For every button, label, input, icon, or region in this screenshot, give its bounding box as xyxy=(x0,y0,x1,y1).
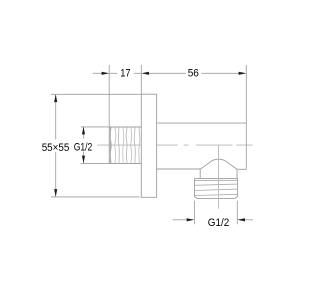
dim 17/56 shared extension line xyxy=(140,65,142,94)
thread boss top edge xyxy=(110,126,142,128)
thread G1/2 dim line upper part xyxy=(83,127,85,139)
horizontal centerline xyxy=(97,144,253,146)
neck right edge xyxy=(236,169,238,178)
svg-text:17: 17 xyxy=(120,68,130,80)
outlet thread line 3 xyxy=(195,189,238,190)
outlet bottom edge xyxy=(197,197,235,199)
thread G1/2 bottom extension line xyxy=(81,162,110,164)
dim 56 line left part xyxy=(149,72,186,74)
dim 17 leader line left xyxy=(93,72,103,74)
dim 17 inner line left stub xyxy=(109,72,117,74)
outlet thread line 1 xyxy=(195,179,238,181)
outlet left edge xyxy=(195,178,198,198)
bell dome cap xyxy=(200,159,237,169)
outlet collar top edge xyxy=(195,177,238,179)
arrow thread G1/2 top xyxy=(82,127,85,135)
dim 17 extension line left xyxy=(108,65,110,164)
outlet G1/2 right extension line xyxy=(236,201,238,225)
thread G1/2 dim line lower part xyxy=(83,152,85,164)
dim 55 line upper part xyxy=(55,94,57,139)
arrow dim56 right xyxy=(239,72,247,75)
body top edge xyxy=(157,122,247,124)
vertical centerline of outlet xyxy=(218,145,220,209)
dim 17 inner line right stub xyxy=(134,72,142,74)
outlet thread line 2 xyxy=(195,184,238,185)
outlet G1/2 left extension line xyxy=(193,201,195,225)
arrow dim17 left xyxy=(102,72,110,75)
arrow dim55 bottom xyxy=(54,189,57,197)
body bottom edge left of bell xyxy=(157,168,201,170)
svg-text:56: 56 xyxy=(188,68,199,80)
arrow outlet G1/2 left xyxy=(187,218,195,221)
svg-text:55×55: 55×55 xyxy=(42,142,70,154)
flange plate 55x55 (side view rectangle) xyxy=(141,94,156,197)
dim 55 line lower part xyxy=(55,152,57,197)
dim 55 bottom extension line xyxy=(51,196,140,198)
outlet G1/2 leader line left xyxy=(173,219,188,221)
dim 56 line right part xyxy=(201,72,239,74)
outlet thread line 4 xyxy=(195,194,238,195)
arrow outlet G1/2 right xyxy=(237,218,245,221)
arrow thread G1/2 bottom xyxy=(82,156,85,164)
thread boss bottom edge xyxy=(110,163,142,165)
dim 56 right extension line / body right edge xyxy=(245,65,247,169)
arrow dim55 top xyxy=(54,94,57,102)
thread boss tip face xyxy=(109,127,111,164)
dim 55 top extension line xyxy=(51,93,141,95)
body bottom edge right of bell xyxy=(237,168,246,170)
svg-text:G1/2: G1/2 xyxy=(208,217,229,229)
arrow dim56 left xyxy=(141,72,149,75)
svg-text:G1/2: G1/2 xyxy=(74,141,93,153)
thread boss hatch lines xyxy=(110,127,140,163)
outlet right edge xyxy=(235,178,238,198)
neck left edge xyxy=(199,169,201,178)
thread G1/2 top extension line xyxy=(81,126,110,128)
outlet G1/2 leader line right xyxy=(245,219,254,221)
